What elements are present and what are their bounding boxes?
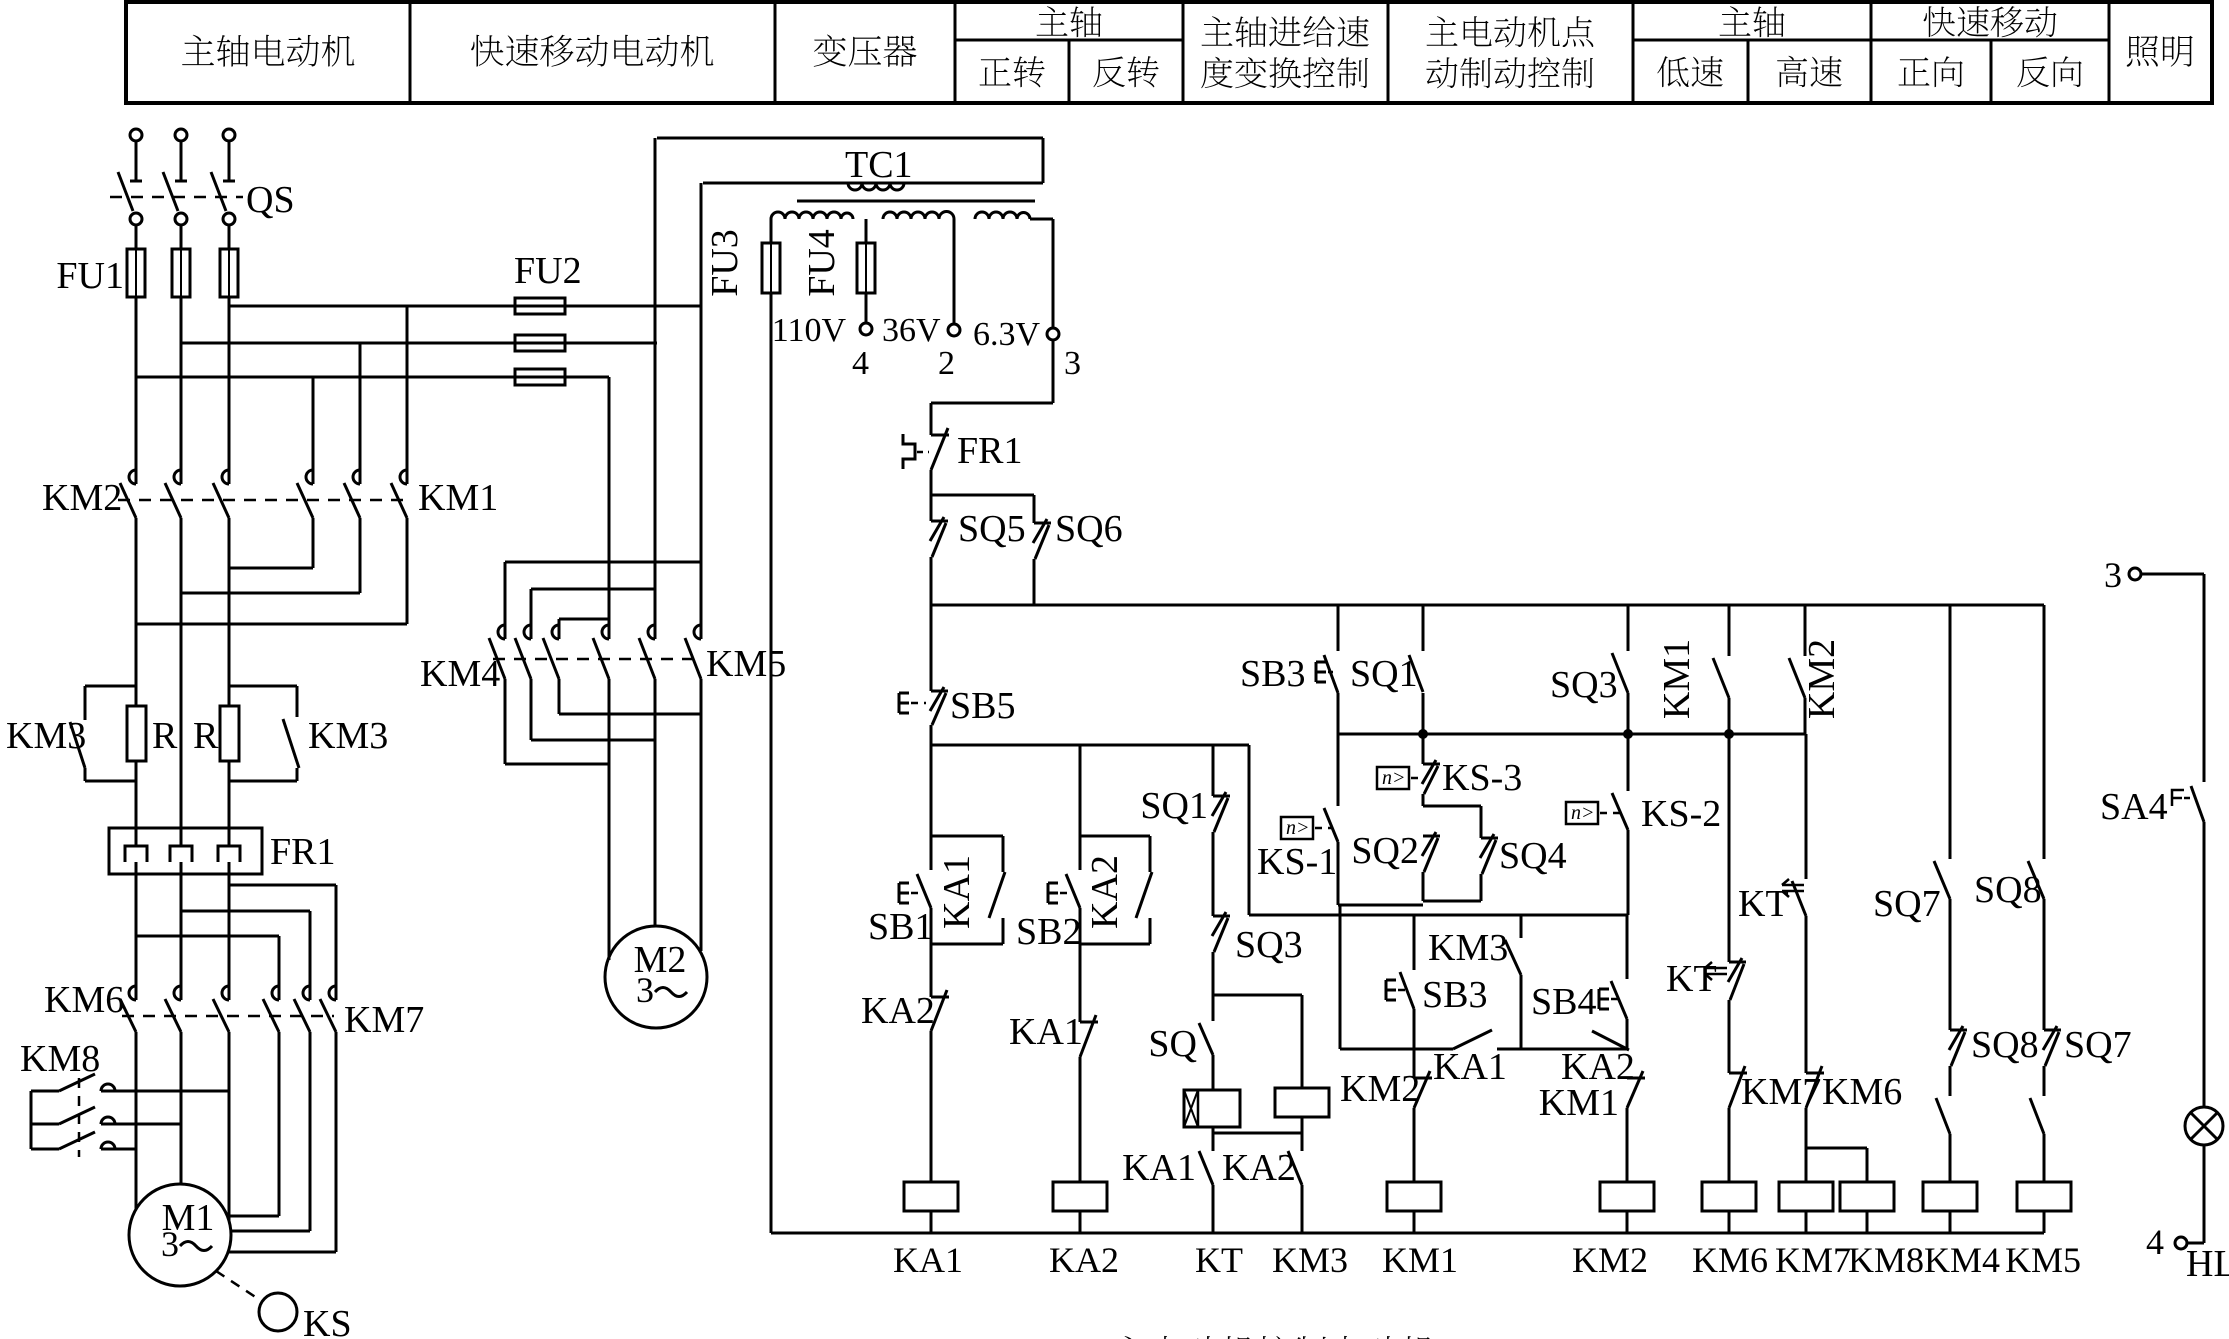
svg-text:3: 3 bbox=[2104, 555, 2122, 595]
linkage KM4-KM5 bbox=[493, 658, 700, 661]
svg-text:SA4: SA4 bbox=[2100, 786, 2168, 828]
header cell 主电动机点动制动控制 bbox=[1427, 16, 1458, 45]
svg-text:SQ8: SQ8 bbox=[1971, 1024, 2039, 1066]
svg-text:KM3: KM3 bbox=[6, 715, 86, 757]
svg-text:KA1: KA1 bbox=[1433, 1046, 1507, 1088]
wire SQ1 branch bbox=[1212, 745, 1215, 796]
wire SB1 to KA2 contact bbox=[930, 908, 933, 997]
svg-text:R: R bbox=[193, 715, 219, 757]
svg-text:KM6: KM6 bbox=[1692, 1240, 1768, 1280]
svg-text:FU4: FU4 bbox=[801, 229, 843, 297]
coil KM5 bbox=[2017, 1182, 2071, 1211]
svg-text:SB3: SB3 bbox=[1240, 653, 1305, 695]
svg-text:FR1: FR1 bbox=[270, 831, 335, 873]
svg-text:KM1: KM1 bbox=[1656, 639, 1698, 719]
limit switch SQ8 NC bbox=[1950, 1029, 1967, 1032]
thermal relay FR1 heaters bbox=[109, 828, 262, 874]
wire TC1 primary drop bbox=[700, 183, 703, 625]
svg-text:KM2: KM2 bbox=[1801, 639, 1843, 719]
speed relay contact KS-2 bbox=[1627, 734, 1630, 791]
motor M2 bbox=[605, 926, 707, 1028]
svg-text:KT: KT bbox=[1195, 1240, 1243, 1280]
contactor KM1 main contacts bbox=[306, 470, 313, 484]
svg-text:KA2: KA2 bbox=[861, 990, 935, 1032]
limit switch SQ5 bbox=[931, 520, 948, 523]
svg-text:KT: KT bbox=[1738, 883, 1789, 925]
wire R to FR1 bbox=[135, 761, 138, 828]
contactor interlock KM1 NC bbox=[1627, 1077, 1645, 1080]
pushbutton SB3 jog bbox=[1413, 915, 1416, 970]
fuse FU4 bbox=[865, 219, 868, 243]
limit switch SQ7 NO bbox=[1949, 605, 1952, 859]
time relay contact KT NO bbox=[1805, 734, 1808, 879]
svg-text:n>: n> bbox=[1571, 802, 1595, 824]
wire KS block to jog tap bbox=[1339, 905, 1342, 1049]
motor M1 bbox=[129, 1184, 231, 1286]
coil KT bbox=[1184, 1090, 1240, 1127]
svg-text:SB4: SB4 bbox=[1531, 981, 1596, 1023]
svg-text:KS-3: KS-3 bbox=[1442, 757, 1522, 799]
limit switch lower blade right bbox=[2030, 1098, 2044, 1134]
resistor R left bbox=[127, 706, 146, 761]
svg-text:KM2: KM2 bbox=[1340, 1068, 1420, 1110]
svg-text:KM4: KM4 bbox=[1924, 1240, 2000, 1280]
contactor interlock KM2 NC bbox=[1414, 1077, 1432, 1080]
coil KM1 bbox=[1387, 1182, 1441, 1211]
svg-text:KA1: KA1 bbox=[893, 1240, 963, 1280]
linkage KM2-KM1 bbox=[118, 499, 405, 502]
wire to KT KM3 parallel bbox=[1212, 952, 1215, 995]
svg-text:FU1: FU1 bbox=[56, 255, 124, 297]
wire third rail bbox=[1249, 914, 1628, 917]
wire bus L2 drop bbox=[654, 138, 657, 625]
wire bus L1 corner drop bbox=[608, 377, 611, 625]
contactor KM3 bypass left bbox=[85, 685, 136, 688]
relay contact KA2 NC bbox=[931, 996, 949, 999]
svg-text:KM1: KM1 bbox=[1539, 1082, 1619, 1124]
wire second rail bbox=[931, 744, 1249, 747]
svg-text:SQ2: SQ2 bbox=[1351, 830, 1419, 872]
supply terminals L1 L2 L3 bbox=[130, 129, 142, 141]
contactor KM3 bypass right bbox=[229, 685, 297, 688]
svg-text:QS: QS bbox=[246, 179, 295, 221]
wire control top rail bbox=[931, 604, 2044, 607]
wire supply drops bbox=[135, 141, 138, 181]
wire SB2 to KA1 contact bbox=[1079, 908, 1082, 1022]
contactor interlock KM6 NC bbox=[1806, 1072, 1824, 1075]
limit switch SQ3 NC bbox=[1213, 915, 1230, 918]
speed relay contact KS-3 bbox=[1422, 734, 1425, 764]
svg-text:KM2: KM2 bbox=[1572, 1240, 1648, 1280]
wire rail to SB5 bbox=[930, 605, 933, 691]
svg-text:36V: 36V bbox=[882, 312, 941, 349]
pushbutton SB4 jog bbox=[1626, 915, 1629, 979]
svg-text:KM6: KM6 bbox=[1822, 1071, 1902, 1113]
svg-text:KM8: KM8 bbox=[1848, 1240, 1924, 1280]
wire second rail corner bbox=[1248, 745, 1251, 915]
svg-text:n>: n> bbox=[1286, 817, 1310, 839]
wire secondary left leg bbox=[770, 219, 773, 243]
wire rail2b bbox=[1338, 733, 1805, 736]
contactor KM6 main contacts bbox=[129, 986, 136, 1000]
header cell 主轴 低速 高速 bbox=[1720, 6, 1751, 35]
wire jog tap right with KA2 bbox=[1497, 1048, 1627, 1051]
header cell 变压器 bbox=[814, 34, 846, 66]
pushbutton SB2 with KA2 hold bbox=[1080, 835, 1150, 838]
svg-text:6.3V: 6.3V bbox=[973, 316, 1041, 353]
wire jog tap left with KA1 bbox=[1340, 1048, 1453, 1051]
svg-text:SB5: SB5 bbox=[950, 685, 1015, 727]
relay contact KA1 NC bbox=[1080, 1021, 1098, 1024]
svg-text:KM3: KM3 bbox=[1428, 927, 1508, 969]
svg-text:KM7: KM7 bbox=[1741, 1071, 1821, 1113]
svg-text:SB2: SB2 bbox=[1016, 911, 1081, 953]
wire KA2 branch bbox=[1079, 745, 1082, 870]
switch QS bbox=[130, 180, 142, 183]
limit switch SQ6 bbox=[1034, 522, 1051, 525]
svg-text:SQ7: SQ7 bbox=[1873, 883, 1941, 925]
svg-text:TC1: TC1 bbox=[845, 144, 913, 186]
svg-text:KM4: KM4 bbox=[420, 653, 500, 695]
wire bus L3 bbox=[229, 305, 701, 308]
svg-text:SQ1: SQ1 bbox=[1350, 653, 1418, 695]
wire SB5 to second rail bbox=[930, 725, 933, 745]
svg-text:SB1: SB1 bbox=[868, 906, 933, 948]
svg-text:KM8: KM8 bbox=[20, 1038, 100, 1080]
time relay contact KT delayed NC bbox=[1728, 734, 1731, 962]
linkage KM6-KM7 bbox=[122, 1015, 334, 1018]
coil KM3 bbox=[1275, 1088, 1329, 1117]
limit switch SQ1 NO bbox=[1422, 605, 1425, 651]
svg-text:3: 3 bbox=[161, 1224, 179, 1264]
svg-text:4: 4 bbox=[852, 345, 869, 382]
svg-text:KM7: KM7 bbox=[1775, 1240, 1851, 1280]
transformer TC1 bbox=[657, 137, 1043, 140]
svg-text:KT: KT bbox=[1666, 958, 1717, 1000]
coil KM2 bbox=[1600, 1182, 1654, 1211]
svg-text:SQ1: SQ1 bbox=[1140, 785, 1208, 827]
svg-text:HL: HL bbox=[2186, 1243, 2229, 1285]
svg-text:SB3: SB3 bbox=[1422, 974, 1487, 1016]
limit switch SQ1 NC bbox=[1213, 795, 1230, 798]
wire bus L2 bbox=[181, 342, 657, 345]
svg-text:KS: KS bbox=[303, 1303, 352, 1339]
wire bus L1 bbox=[136, 376, 609, 379]
svg-text:KM5: KM5 bbox=[706, 643, 786, 685]
contactor KM2 main contacts bbox=[129, 470, 136, 484]
svg-text:KA2: KA2 bbox=[1049, 1240, 1119, 1280]
speed relay KS bbox=[216, 1271, 260, 1300]
wire QS to FU1 bbox=[135, 225, 138, 249]
svg-text:4: 4 bbox=[2146, 1222, 2164, 1262]
svg-text:KM3: KM3 bbox=[1272, 1240, 1348, 1280]
svg-text:SQ7: SQ7 bbox=[2064, 1024, 2132, 1066]
header cell 快速移动电动机 bbox=[471, 35, 503, 67]
svg-text:KA1: KA1 bbox=[1009, 1011, 1083, 1053]
svg-text:FR1: FR1 bbox=[957, 430, 1022, 472]
contactor KM4 main contacts bbox=[498, 625, 505, 639]
wire KS block bottom bbox=[1338, 904, 1423, 907]
contactor KM7 main contacts bbox=[272, 986, 279, 1000]
wire SQ5 SQ6 to rail bbox=[930, 557, 933, 605]
lamp HL bbox=[2185, 1107, 2223, 1145]
svg-text:SQ3: SQ3 bbox=[1235, 924, 1303, 966]
contactor contact KM2 NO bbox=[1804, 605, 1807, 656]
pushbutton SB5 bbox=[898, 693, 901, 713]
svg-text:KM6: KM6 bbox=[44, 979, 124, 1021]
svg-text:KA2: KA2 bbox=[1084, 855, 1126, 929]
fuse FU3 bbox=[762, 243, 780, 293]
pushbutton SB1 with KA1 hold bbox=[931, 835, 1003, 838]
pushbutton SB3 top bbox=[1337, 605, 1340, 651]
wire KM7 outputs to M1 bbox=[278, 1032, 281, 1216]
relay contact KA1 NO bbox=[1199, 1151, 1213, 1185]
resistor R right bbox=[220, 706, 239, 761]
header cell 快速移动 正向 反向 bbox=[1924, 6, 1955, 37]
coil KM4 bbox=[1923, 1182, 1977, 1211]
wire FU1 to KM2 contacts bbox=[135, 297, 138, 470]
border frame bbox=[126, 2, 2212, 103]
title text clipped bbox=[1114, 1336, 1435, 1339]
wire KM1 output crossover bbox=[312, 518, 315, 568]
svg-text:KM1: KM1 bbox=[418, 477, 498, 519]
limit switch lower blade left bbox=[1936, 1098, 1950, 1134]
svg-text:2: 2 bbox=[938, 345, 955, 382]
header cell 主轴电动机 bbox=[182, 35, 214, 65]
limit switch SQ8 NO bbox=[2043, 605, 2046, 859]
fuse FU1 bbox=[127, 249, 145, 297]
svg-text:SQ6: SQ6 bbox=[1055, 508, 1123, 550]
wire coils to KA contacts bbox=[1212, 1127, 1215, 1133]
wire phase columns to R section bbox=[135, 518, 138, 706]
coil KM6 bbox=[1702, 1182, 1756, 1211]
svg-text:110V: 110V bbox=[772, 312, 847, 349]
header cell 主轴进给速度变换控制 bbox=[1202, 16, 1233, 45]
svg-text:KA2: KA2 bbox=[1222, 1147, 1296, 1189]
coil KA1 bbox=[904, 1182, 958, 1211]
wire KM1 feed drops bbox=[312, 377, 315, 470]
limit switch SQ3 NO bbox=[1627, 605, 1630, 651]
contactor contact KM1 NO bbox=[1728, 605, 1731, 656]
svg-text:SQ: SQ bbox=[1148, 1023, 1197, 1065]
wire KM8 coil branch bbox=[1806, 1147, 1867, 1150]
svg-text:FU2: FU2 bbox=[514, 250, 582, 292]
wire to KA1 coil bbox=[930, 1031, 933, 1182]
wire KM5 outputs to M2 bbox=[608, 679, 611, 960]
contactor interlock KM7 NC bbox=[1729, 1072, 1747, 1075]
coil KM7 bbox=[1779, 1182, 1833, 1211]
svg-text:SQ3: SQ3 bbox=[1550, 664, 1618, 706]
svg-text:SQ8: SQ8 bbox=[1974, 869, 2042, 911]
svg-text:n>: n> bbox=[1382, 767, 1406, 789]
terminal 110V 4 bbox=[865, 293, 868, 323]
svg-text:KM2: KM2 bbox=[42, 477, 122, 519]
svg-text:3: 3 bbox=[1064, 345, 1081, 382]
limit switch SQ2 SQ4 parallel bbox=[1422, 794, 1425, 806]
fuse FU2 bbox=[515, 298, 565, 314]
limit switch SQ7 NC bbox=[2044, 1029, 2061, 1032]
svg-text:R: R bbox=[152, 715, 178, 757]
switch SA4 bbox=[2172, 790, 2184, 806]
contactor KM5 main contacts bbox=[602, 625, 609, 639]
wire 6.3V to FR1 contact bbox=[1052, 340, 1055, 403]
svg-text:KM3: KM3 bbox=[308, 715, 388, 757]
wire to SA4 bbox=[2203, 574, 2206, 782]
svg-text:FU3: FU3 bbox=[704, 229, 746, 297]
svg-text:KS-1: KS-1 bbox=[1257, 841, 1337, 883]
wire SA4 to lamp bbox=[2203, 822, 2206, 1108]
contactor contact KM3 NO bbox=[1520, 915, 1523, 938]
terminal 36V 2 bbox=[953, 219, 956, 324]
limit switch SQ impulse bbox=[1212, 995, 1215, 1021]
wire to KA2 coil bbox=[1079, 1057, 1082, 1182]
header cell 主轴 正转 反转 bbox=[1037, 6, 1068, 35]
wire FU3 to bottom rail bbox=[770, 293, 773, 1233]
wire FR1 to SQ5 SQ6 bbox=[930, 470, 933, 521]
speed relay contact KS-1 bbox=[1337, 734, 1340, 806]
wire bottom rail bbox=[771, 1232, 2044, 1235]
table column lines bbox=[409, 2, 412, 103]
wire FR1 outputs to KM6 KM7 bbox=[135, 874, 138, 986]
svg-text:KA1: KA1 bbox=[936, 855, 978, 929]
wire SQ1 to SQ3 bbox=[1212, 832, 1215, 916]
terminal 6.3V 3 bbox=[1030, 218, 1053, 221]
wire FU2 to KM4 KM5 feeds bbox=[505, 561, 701, 564]
svg-text:SQ4: SQ4 bbox=[1499, 835, 1567, 877]
svg-text:KM7: KM7 bbox=[344, 999, 424, 1041]
header cell 照明 bbox=[2127, 36, 2158, 67]
svg-text:SQ5: SQ5 bbox=[958, 508, 1026, 550]
coil KM8 bbox=[1840, 1182, 1894, 1211]
wire KA1 branch bbox=[930, 745, 933, 870]
svg-text:KS-2: KS-2 bbox=[1641, 793, 1721, 835]
thermal contact FR1 bbox=[903, 434, 915, 469]
svg-text:KA1: KA1 bbox=[1122, 1147, 1196, 1189]
wire lamp to terminal 4 bbox=[2203, 1145, 2206, 1243]
svg-text:KM1: KM1 bbox=[1382, 1240, 1458, 1280]
svg-text:3: 3 bbox=[636, 970, 654, 1010]
relay contact KA2 NO bbox=[1288, 1151, 1302, 1185]
coil KA2 bbox=[1053, 1182, 1107, 1211]
svg-text:KM5: KM5 bbox=[2005, 1240, 2081, 1280]
wire KM6 outputs to M1 bbox=[135, 1032, 138, 1209]
wire KM4 KM5 output crossover bbox=[504, 679, 507, 764]
